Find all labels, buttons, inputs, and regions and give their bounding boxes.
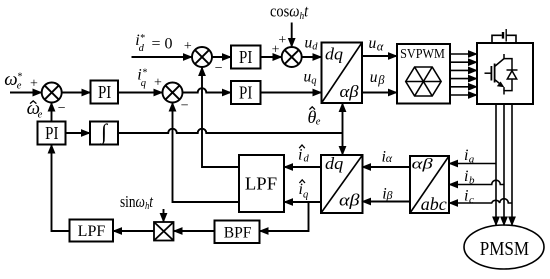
- node theta-hat_e label: [308, 107, 321, 128]
- wire: u_beta: [362, 92, 397, 94]
- svg-text:abc: abc: [421, 194, 447, 214]
- svg-text:SVPWM: SVPWM: [400, 47, 445, 62]
- svg-text:α: α: [386, 151, 393, 165]
- svg-text:α: α: [377, 39, 384, 53]
- wire: branch down to BPF: [260, 202, 309, 231]
- svg-text:ω: ω: [4, 69, 17, 90]
- block BPF: [215, 221, 260, 244]
- svg-text:β: β: [386, 188, 393, 202]
- node i-hat_d label: [298, 145, 310, 164]
- svg-text:*: *: [142, 67, 147, 78]
- wire: theta-hat bus with hops: [118, 129, 343, 133]
- wire: sin into multiplier: [163, 209, 165, 222]
- svg-text:d: d: [312, 41, 318, 52]
- svg-text:LPF: LPF: [245, 174, 277, 194]
- wire: J3 to PI2: [212, 56, 231, 58]
- wire: theta to voltage dq block: [342, 103, 344, 133]
- svg-text:e: e: [38, 110, 43, 121]
- svg-text:dq: dq: [325, 154, 344, 173]
- svg-text:PI: PI: [239, 83, 252, 103]
- svg-text:q: q: [141, 78, 146, 89]
- svg-text:i: i: [464, 188, 468, 205]
- svg-text:u: u: [369, 35, 377, 52]
- svg-text:q: q: [303, 189, 308, 200]
- summing junction J2 (q current): [163, 83, 183, 103]
- svg-text:+: +: [30, 76, 38, 91]
- svg-text:−: −: [58, 101, 66, 116]
- svg-text:PI: PI: [98, 82, 111, 102]
- svg-text:β: β: [377, 73, 385, 87]
- svg-text:b: b: [469, 174, 475, 186]
- wires: SVPWM six gate signals: [450, 54, 477, 95]
- wire: i_b tap with hop: [449, 180, 504, 184]
- motor PMSM: [464, 225, 544, 269]
- block PI1 speed controller: [91, 81, 119, 104]
- svg-text:d: d: [304, 153, 310, 164]
- svg-text:αβ: αβ: [340, 82, 360, 101]
- wire: cos injection down into J4: [291, 23, 293, 48]
- svg-text:+: +: [184, 39, 192, 54]
- svg-text:e: e: [316, 117, 321, 128]
- svg-text:i: i: [464, 168, 468, 185]
- multiplier (demodulator): [154, 222, 174, 241]
- block integrator: [90, 119, 118, 145]
- svg-text:q: q: [311, 75, 316, 86]
- svg-text:sinωht: sinωht: [120, 192, 154, 212]
- node i_a label: [464, 147, 475, 165]
- node u_alpha label: [369, 35, 384, 53]
- wire: theta to current dq block: [342, 133, 344, 155]
- wire: LPF d output up to J3: [202, 67, 239, 167]
- wire: omega*_e input: [10, 92, 42, 94]
- block PI3 q-axis controller: [231, 81, 261, 104]
- svg-text:u: u: [305, 35, 313, 52]
- svg-text:+: +: [278, 33, 286, 48]
- svg-text:PI: PI: [45, 123, 58, 143]
- block LPF main: [239, 155, 284, 212]
- svg-text:= 0: = 0: [152, 35, 173, 52]
- svg-text:αβ: αβ: [339, 191, 360, 210]
- svg-text:cosωht: cosωht: [270, 2, 309, 22]
- node i*_d = 0 label: [135, 32, 172, 54]
- wire: i_alpha: [362, 166, 410, 168]
- node omega*_e label: [4, 69, 22, 92]
- svg-text:PI: PI: [239, 47, 252, 67]
- wire: PI4 up to J1: [51, 103, 53, 122]
- wire: multiplier to LPF2: [113, 230, 154, 232]
- wire: J4 to dq block (u_d): [302, 56, 322, 58]
- svg-text:d: d: [139, 43, 145, 54]
- node u_beta label: [370, 69, 385, 87]
- svg-text:a: a: [469, 153, 475, 165]
- block dq/ab current transform U2: [321, 154, 363, 213]
- summing junction J3 (d current): [192, 47, 212, 67]
- block PI4 estimator: [38, 122, 66, 145]
- wire: BPF to multiplier: [174, 230, 215, 232]
- node i_alpha label: [382, 149, 393, 166]
- node u_q label: [304, 68, 317, 86]
- wire: i-hat_q to LPF: [284, 201, 321, 203]
- wire: J2 to PI3 with hop: [183, 88, 232, 92]
- svg-text:−: −: [181, 99, 189, 114]
- svg-text:u: u: [370, 69, 378, 86]
- wire: PI2 to J4: [261, 56, 282, 58]
- wire: LPF2 to PI4: [52, 145, 70, 232]
- block SVPWM: [397, 44, 450, 104]
- summing junction J1 (speed): [42, 83, 62, 103]
- svg-text:+: +: [154, 75, 162, 90]
- summing junction J4 (hf injection): [282, 47, 302, 67]
- svg-text:dq: dq: [325, 44, 344, 63]
- wire: i_c tap with hops: [449, 199, 512, 203]
- node i_b label: [464, 168, 475, 186]
- wire: i-hat_d to LPF: [284, 166, 321, 168]
- svg-text:αβ: αβ: [412, 157, 434, 173]
- svg-text:e: e: [17, 81, 22, 92]
- node u_d label: [305, 35, 319, 53]
- block ab/abc current transform: [410, 156, 449, 214]
- wire: i*_d = 0 input: [132, 56, 193, 58]
- battery (DC link): [492, 29, 516, 43]
- wire: J1 to PI1: [62, 92, 91, 94]
- node i_c label: [464, 188, 474, 206]
- svg-text:−: −: [215, 61, 223, 76]
- node i-hat_q label: [299, 180, 309, 201]
- wires: three phase lines to PMSM: [496, 104, 512, 226]
- svg-text:LPF: LPF: [78, 223, 106, 240]
- block inverter: [477, 43, 533, 104]
- node i_beta label: [382, 185, 392, 202]
- wire: u_alpha: [362, 55, 397, 57]
- block PI2 d-axis controller: [231, 46, 261, 69]
- wire: i_a tap: [449, 163, 496, 165]
- transistor IGBT with diode: [485, 54, 518, 95]
- svg-text:PMSM: PMSM: [480, 238, 529, 260]
- wire: PI3 to dq block (u_q): [261, 92, 322, 94]
- wire: PI4 to integrator: [66, 132, 91, 134]
- wire: i_beta: [362, 201, 410, 203]
- block dq/ab voltage transform U1: [322, 43, 363, 104]
- wire: PI1 to J2 (i*_q): [118, 92, 163, 94]
- svg-text:c: c: [469, 194, 474, 206]
- wire: LPF q output up to J2: [173, 103, 240, 203]
- node i*_q label: [137, 66, 147, 89]
- svg-text:i: i: [298, 146, 302, 163]
- svg-text:BPF: BPF: [224, 225, 252, 242]
- block LPF2: [70, 220, 114, 242]
- node omega-hat_e label: [27, 98, 43, 121]
